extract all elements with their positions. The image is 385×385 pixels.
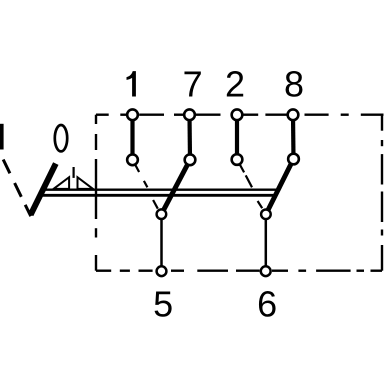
enclosure right edge (dash-dot) (381, 115, 383, 271)
contact arm 6-8 (closed, thick) (266, 159, 294, 214)
actuator chain-line vertical dash (mechanical link, clipped at left edge) (0, 124, 4, 150)
contact arm 5-1 (open position, dashed) (134, 163, 158, 209)
terminal 2 connector wire (235, 115, 239, 160)
terminal 7 lower contact circle (185, 154, 196, 165)
detent latch left triangle (54, 177, 70, 189)
wire pivot to terminal 6 (265, 214, 268, 271)
actuator bar upper line (41, 188, 278, 190)
terminal 5 circle (157, 266, 167, 276)
terminal 7 connector wire (187, 115, 192, 160)
svg-text:5: 5 (153, 284, 173, 325)
terminal 2 lower contact circle (232, 154, 243, 165)
enclosure top edge (dashed) (96, 113, 384, 115)
svg-text:6: 6 (257, 284, 277, 325)
terminal 7 top contact circle (184, 109, 195, 120)
terminal 8 connector wire (291, 115, 296, 159)
contact arm 5-7 (closed, thick) (161, 160, 190, 214)
enclosure bottom edge (dash-dot) (96, 270, 382, 272)
actuator bar lower line (40, 194, 277, 197)
terminal 6 circle (261, 266, 271, 276)
pin label 1 (127, 71, 136, 96)
manual operating lever (31, 164, 56, 215)
terminal 1 top contact circle (127, 109, 138, 120)
detent latch tick (72, 167, 74, 178)
wire pivot to terminal 5 (160, 214, 163, 271)
detent latch right triangle (78, 177, 94, 189)
enclosure left edge (dashed) (95, 115, 97, 271)
svg-text:8: 8 (284, 64, 304, 105)
terminal 1 lower contact circle (127, 154, 138, 165)
terminal 8 lower contact circle (288, 154, 299, 165)
terminal 2 top contact circle (232, 109, 243, 120)
terminal 8 top contact circle (288, 109, 299, 120)
actuator dashed diagonal link to lever (3, 160, 31, 217)
terminal 1 connector wire (130, 115, 134, 160)
svg-text:2: 2 (225, 64, 245, 105)
svg-text:7: 7 (183, 64, 203, 105)
contact arm 6-2 (open position, dashed) (239, 163, 262, 208)
pivot contact circle pole 5 (157, 209, 167, 219)
pivot contact circle pole 6 (261, 210, 271, 220)
position label 0 (55, 125, 67, 151)
